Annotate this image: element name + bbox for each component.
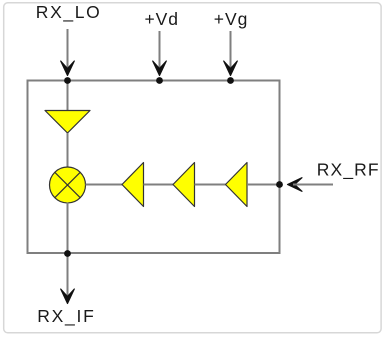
amplifier A3 (pointing left) [226, 163, 248, 207]
junction RF node [276, 181, 283, 188]
wire A3 to RF node [247, 184, 280, 186]
junction Vd node [156, 77, 163, 84]
amplifier A1 (pointing left) [122, 163, 144, 207]
wire RX_IF lead [67, 254, 69, 298]
junction Vg node [227, 77, 234, 84]
wire +Vd lead [159, 31, 161, 70]
svg-text:+Vd: +Vd [145, 9, 179, 29]
junction IF node [64, 250, 71, 257]
wire LO vertical into buffer [67, 81, 69, 112]
wire RX_LO lead [67, 29, 69, 70]
buffer amplifier (LO, pointing down) [45, 111, 90, 134]
arrowhead RX_LO into box [61, 61, 75, 76]
wire A1 to A2 [144, 184, 174, 186]
wire RX_RF lead [293, 184, 333, 186]
wire mixer to IF node [67, 203, 69, 254]
arrowhead +Vg into box [224, 61, 238, 76]
svg-text:RX_RF: RX_RF [317, 160, 379, 181]
wire buffer to mixer [67, 133, 69, 169]
junction LO node [64, 77, 71, 84]
svg-text:RX_LO: RX_LO [36, 2, 100, 23]
wire A2 to A3 [195, 184, 226, 186]
amplifier A2 (pointing left) [173, 163, 195, 207]
wire mixer to amp A1 [86, 184, 123, 186]
mixer [50, 167, 86, 203]
svg-text:RX_IF: RX_IF [37, 306, 94, 327]
arrowhead RX_IF output [61, 289, 75, 304]
arrowhead RX_RF into box [288, 178, 303, 192]
wire +Vg lead [230, 31, 232, 70]
arrowhead +Vd into box [153, 61, 167, 76]
enclosure box [28, 81, 280, 254]
svg-text:+Vg: +Vg [214, 9, 248, 29]
